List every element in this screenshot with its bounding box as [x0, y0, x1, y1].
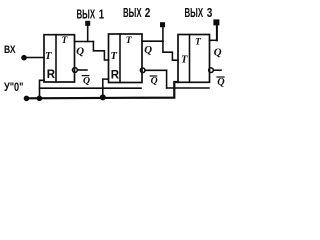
junction dot R2-bus: [100, 94, 106, 100]
FF2 input field divider: [119, 34, 121, 83]
wire branch B under FF3: [167, 87, 209, 89]
FF1 inverted output bubble: [73, 68, 78, 73]
wire VYH2 drop: [162, 27, 164, 41]
flip-flop FF3 box: [178, 35, 210, 83]
wire Q3-bar stub: [213, 69, 221, 71]
FF3 Q-bar overline: [217, 76, 224, 78]
svg-text:Q: Q: [76, 45, 84, 57]
wire R2 stub: [103, 79, 109, 97]
svg-text:Q: Q: [214, 47, 222, 59]
node VYH2 label: [123, 6, 150, 20]
junction dot R1-bus: [37, 96, 43, 102]
svg-text:3: 3: [207, 6, 213, 20]
flip-flop FF2 box: [109, 34, 143, 83]
wire Q2-bar stub: [145, 69, 167, 71]
wire staircase Q2 to T3: [163, 41, 178, 60]
node VYH3 label: [185, 6, 213, 20]
svg-text:У"0": У"0": [4, 82, 24, 94]
terminal square VYH2: [160, 22, 165, 27]
wire R1 stub: [40, 80, 45, 98]
terminal square VYH3: [213, 19, 219, 25]
FF2 inverted output bubble: [140, 68, 145, 73]
FF2 Q-bar overline: [150, 75, 157, 77]
svg-text:2: 2: [145, 6, 151, 20]
svg-text:ВЫХ: ВЫХ: [185, 6, 204, 20]
node VYH1 label: [77, 7, 105, 21]
svg-text:T: T: [181, 55, 188, 66]
svg-text:R: R: [47, 69, 56, 81]
terminal dot U0: [24, 96, 30, 102]
terminal dot VX: [21, 55, 27, 61]
svg-text:ВЫХ: ВЫХ: [77, 7, 96, 21]
svg-text:T: T: [111, 51, 118, 62]
svg-text:Q: Q: [217, 77, 225, 88]
FF1 input field divider: [55, 35, 57, 82]
wire Q1-bar stub: [77, 69, 87, 71]
svg-text:ВХ: ВХ: [4, 44, 16, 56]
svg-text:R: R: [111, 70, 120, 82]
flip-flop FF1 box: [44, 35, 75, 82]
wire staircase Q1 to T2: [93, 42, 108, 61]
svg-text:1: 1: [99, 7, 104, 21]
svg-text:T: T: [45, 51, 52, 62]
wire Q2-bar drop: [166, 70, 168, 88]
svg-text:Q: Q: [144, 44, 152, 56]
FF3 input field divider: [189, 35, 191, 83]
wire VX to T input of FF1: [24, 57, 44, 59]
FF3 inverted output bubble: [209, 68, 214, 73]
wire Q2 output: [142, 40, 163, 42]
wire U0 bus: [27, 82, 179, 98]
wire VYH3 drop: [216, 26, 218, 41]
svg-text:ВЫХ: ВЫХ: [123, 6, 142, 20]
wire Q3 output: [210, 39, 217, 41]
wire Q1 output: [75, 41, 94, 43]
wire branch A under FF1-FF2: [40, 87, 142, 89]
svg-text:Q: Q: [151, 76, 158, 87]
svg-text:Q: Q: [83, 76, 90, 87]
FF1 Q-bar overline: [82, 75, 89, 77]
wire VYH1 drop: [87, 26, 89, 42]
terminal square VYH1: [85, 21, 90, 26]
